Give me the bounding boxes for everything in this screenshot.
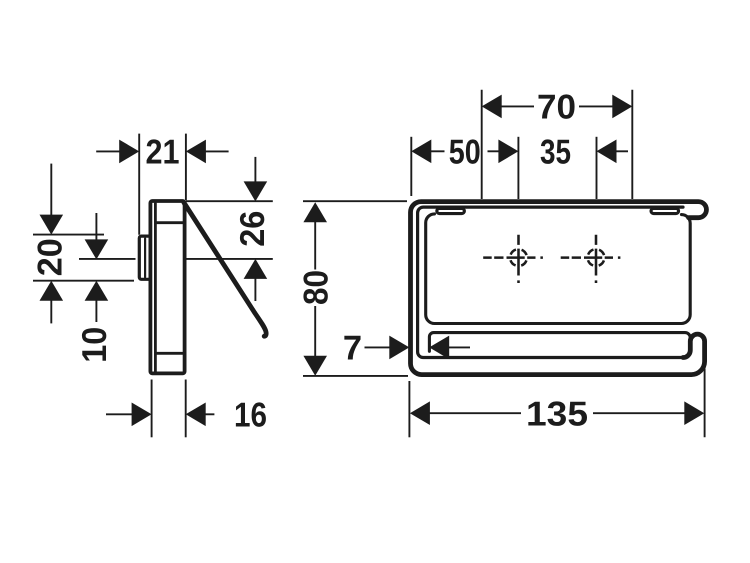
svg-text:135: 135 — [526, 395, 588, 433]
svg-text:21: 21 — [146, 134, 180, 172]
svg-text:10: 10 — [76, 327, 114, 363]
svg-text:35: 35 — [540, 133, 571, 171]
svg-text:70: 70 — [537, 88, 576, 126]
svg-text:20: 20 — [32, 238, 70, 276]
svg-text:7: 7 — [343, 330, 362, 368]
svg-text:50: 50 — [449, 133, 481, 171]
svg-text:26: 26 — [234, 211, 272, 247]
svg-text:16: 16 — [234, 396, 267, 434]
svg-text:80: 80 — [297, 270, 335, 305]
